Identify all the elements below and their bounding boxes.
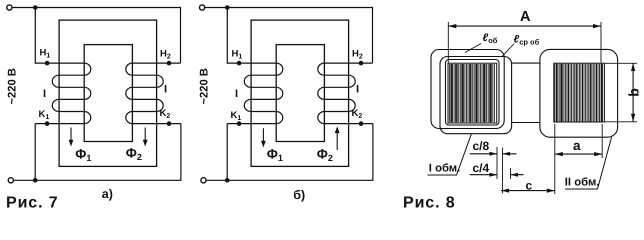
node H2 <box>167 61 172 66</box>
labels fig 8 <box>403 9 642 212</box>
node junction bottom <box>33 178 38 183</box>
node junction top <box>33 5 38 10</box>
node H2 b <box>359 61 364 66</box>
leader l_ob <box>465 44 481 53</box>
dim b <box>605 63 637 122</box>
terminal top-left b <box>200 5 205 10</box>
core limb I frame <box>448 63 497 123</box>
leader l_sr_ob <box>503 44 515 57</box>
wire K1 drop b <box>226 124 228 181</box>
node junction bottom b <box>225 178 230 183</box>
core limb I laminations <box>449 64 494 122</box>
dim A <box>448 22 601 63</box>
node K2 <box>167 121 172 126</box>
flux arrow phi2 b (up) <box>335 126 340 149</box>
dim a <box>555 124 602 158</box>
svg-text:A: A <box>520 9 531 25</box>
svg-text:~220 В: ~220 В <box>198 68 210 104</box>
coil I inner outline <box>446 60 500 126</box>
coil I outline offset <box>440 57 512 134</box>
leader I obm <box>428 134 472 175</box>
core outer b <box>251 20 349 166</box>
wire bottom b <box>206 124 373 181</box>
svg-text:II обм.: II обм. <box>565 176 600 188</box>
node K1 <box>45 121 50 126</box>
wire K1 drop <box>34 124 36 181</box>
labels b) <box>198 49 363 202</box>
terminal bottom-left b <box>201 178 206 183</box>
wire top <box>12 8 180 64</box>
svg-text:I: I <box>356 84 359 96</box>
winding R (secondary) <box>126 63 181 124</box>
labels a) <box>6 48 171 212</box>
svg-text:a: a <box>573 138 581 153</box>
flux arrow phi1 b <box>261 128 266 147</box>
svg-text:c/8: c/8 <box>473 139 490 153</box>
svg-text:Рис. 7: Рис. 7 <box>6 195 59 212</box>
terminal bottom-left <box>8 178 13 183</box>
leader II obm <box>565 137 612 189</box>
core inner b <box>276 45 324 142</box>
svg-text:I обм.: I обм. <box>429 162 461 174</box>
svg-text:c: c <box>526 179 533 193</box>
core yoke edges in gap <box>512 63 541 122</box>
coil II outline <box>540 49 618 137</box>
winding L b <box>227 63 283 124</box>
core limb II laminations <box>555 64 603 122</box>
svg-text:I: I <box>43 88 46 100</box>
coil I outline main <box>431 50 504 129</box>
core limb II frame <box>554 63 605 122</box>
node K1 b <box>237 121 242 126</box>
wire bottom <box>14 124 181 181</box>
svg-text:б): б) <box>293 188 305 202</box>
dim c <box>501 158 555 194</box>
node H1 b <box>237 61 242 66</box>
svg-text:Рис. 8: Рис. 8 <box>403 195 456 212</box>
flux arrow phi2 <box>143 128 148 147</box>
dim c/4 <box>470 168 524 179</box>
svg-text:а): а) <box>102 187 113 201</box>
wire H1 drop b <box>227 8 276 64</box>
svg-text:~220 В: ~220 В <box>6 68 18 104</box>
winding R b <box>318 63 373 124</box>
node junction top b <box>225 5 230 10</box>
wire H1 drop <box>35 8 84 64</box>
core inner <box>84 45 132 142</box>
wire top b <box>205 8 373 64</box>
flux arrow phi1 <box>69 128 74 147</box>
node H1 <box>45 61 50 66</box>
svg-text:c/4: c/4 <box>473 161 490 175</box>
svg-text:I: I <box>164 84 167 96</box>
node K2 b <box>359 121 364 126</box>
dim c/8 <box>470 147 517 194</box>
winding L (primary) <box>35 63 91 124</box>
core outer <box>59 20 157 166</box>
svg-text:b: b <box>626 88 642 97</box>
terminal top-left <box>7 5 12 10</box>
svg-text:I: I <box>235 88 238 100</box>
